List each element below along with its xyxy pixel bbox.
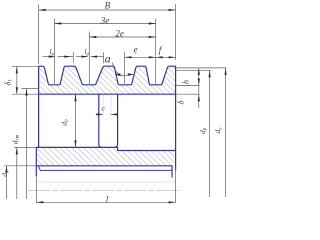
hub left face: [35, 147, 37, 176]
arrows h: [198, 68, 200, 75]
svg-text:h: h: [181, 80, 190, 84]
arrows delta1 left: [16, 66, 18, 73]
hub top lines: [36, 147, 175, 150]
dimension line 3e: [54, 23, 155, 25]
dimension line de: [225, 68, 227, 197]
dimension line B: [39, 9, 176, 11]
groove 2 centerline: [88, 32, 90, 85]
arrows lp g1: [49, 56, 56, 58]
groove 4 centerline: [155, 19, 157, 85]
hub cross-section hatched area: [36, 147, 175, 165]
ext bore left: [4, 165, 36, 167]
svg-text:a: a: [105, 51, 111, 65]
dimension line d1 (web recess): [75, 94, 77, 147]
dimension line 2e: [89, 36, 155, 38]
dimension line L: [36, 201, 175, 203]
dimension lp groove2: [76, 56, 88, 58]
arrows f: [156, 56, 163, 58]
extension line right face top: [175, 4, 177, 60]
dimension line delta1 (left): [16, 66, 18, 94]
arrow d_st: [16, 147, 18, 154]
faint far-side keyway line: [36, 181, 175, 183]
ext lines for L: [35, 177, 37, 203]
dimension line d bore: [6, 166, 8, 199]
groove 1 centerline: [53, 19, 55, 85]
extension line left face top: [38, 5, 40, 65]
svg-text:B: B: [105, 0, 111, 10]
arrows d1 web: [74, 94, 76, 101]
svg-text:2e: 2e: [115, 29, 124, 39]
dimension line dp: [209, 70, 211, 197]
arrows L: [36, 201, 43, 203]
arrows B: [39, 9, 46, 11]
keyway: [38, 166, 172, 170]
arrow d bore: [5, 166, 7, 173]
dimension line f: [156, 56, 176, 58]
dimension line inner rim diameter (left): [26, 89, 28, 199]
svg-text:e: e: [134, 44, 138, 54]
arrows e: [125, 56, 132, 58]
arrow dp: [209, 70, 211, 77]
ext hub top left: [14, 146, 36, 148]
arrow delta (up from below): [198, 94, 200, 101]
ext lines left side: [12, 65, 39, 67]
bore line: [36, 166, 172, 178]
arrows 2e: [89, 36, 96, 38]
rim inner surface line: [39, 93, 176, 95]
arrows 3e: [54, 22, 61, 24]
faint web cone silhouette lines: [102, 96, 104, 115]
groove 3 centerline: [124, 52, 126, 85]
ext lines right side: [176, 67, 227, 69]
dimension line e: [125, 56, 156, 58]
dimension line d_st: [16, 147, 18, 199]
arrows a: [115, 73, 121, 76]
arrow inner rim dia: [25, 89, 27, 96]
arrows c: [97, 113, 104, 115]
leader arc of a: [113, 63, 120, 74]
rim cross-section hatched area: [39, 66, 176, 94]
web (disc) strip edges: [99, 94, 102, 147]
dimension c (web thickness): [96, 113, 103, 115]
dimension line h and delta (right): [198, 68, 200, 108]
rim outline with grooves: [39, 66, 176, 170]
arrows lp g2: [82, 56, 89, 58]
axis line: [28, 190, 181, 192]
arrow de: [225, 68, 227, 75]
dimension lp groove1: [43, 56, 55, 58]
svg-text:3e: 3e: [100, 16, 110, 26]
